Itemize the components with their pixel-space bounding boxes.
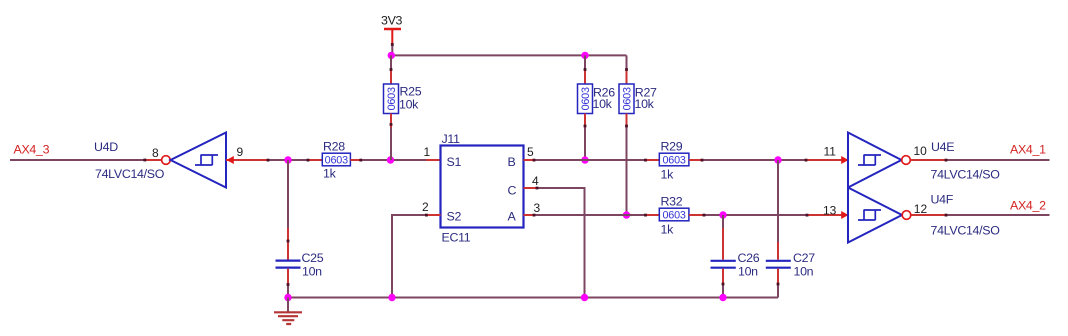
R26 top wire: [584, 55, 586, 70]
R29 left lead: [646, 159, 660, 161]
capacitor C26 plates: [711, 261, 736, 268]
wire endpoint ticks: [143, 43, 947, 286]
wire C25 to ground bus: [287, 284, 289, 298]
resistor R32 body: [659, 208, 689, 221]
R26 top lead: [584, 70, 586, 84]
wire C net to ground bus: [537, 188, 585, 298]
op-amp U4D inverter bubble: [162, 156, 171, 165]
op-amp U4E triangle: [848, 133, 902, 188]
op-amp U4D triangle: [171, 133, 227, 188]
R32 left lead: [646, 214, 660, 216]
svg-text:8: 8: [152, 146, 159, 160]
R27 top lead: [626, 70, 628, 84]
junction node at C25 top: [284, 156, 291, 163]
junction ground at C25: [284, 294, 291, 301]
pin 12 lead of U4F: [911, 214, 946, 216]
U4D input arrow: [227, 156, 234, 164]
C25 bottom lead: [287, 269, 289, 284]
C26 top lead: [722, 228, 724, 260]
svg-text:0603: 0603: [662, 210, 685, 222]
junction C26 top on A net: [719, 211, 726, 218]
svg-text:AX4_3: AX4_3: [14, 143, 50, 157]
resistor R29 body: [659, 153, 689, 166]
svg-text:10k: 10k: [399, 98, 419, 112]
resistor R26 body: [578, 84, 593, 114]
svg-text:1k: 1k: [661, 223, 675, 237]
resistor R28 body: [322, 153, 350, 166]
svg-text:74LVC14/SO: 74LVC14/SO: [95, 167, 165, 181]
svg-text:C: C: [508, 184, 517, 198]
wire 3V3 to top bus: [391, 44, 393, 55]
R25 top wire: [390, 55, 392, 70]
wire U4F to AX4_2: [946, 214, 1050, 216]
pin 4 lead of J11: [524, 187, 538, 189]
svg-text:2: 2: [422, 200, 429, 214]
wire C27 to ground bus: [777, 283, 779, 298]
resistor R25 body: [384, 84, 399, 114]
wire S2 to ground bus: [392, 215, 426, 298]
svg-text:10k: 10k: [635, 97, 655, 111]
svg-text:AX4_1: AX4_1: [1010, 142, 1046, 156]
svg-text:0603: 0603: [386, 87, 398, 110]
R25 wire to node: [390, 128, 392, 161]
svg-text:10: 10: [914, 144, 928, 158]
svg-text:4: 4: [532, 174, 539, 188]
svg-text:A: A: [508, 209, 517, 223]
wire R28 to J11 pin1: [361, 159, 426, 161]
pin 3 lead of J11: [524, 214, 534, 216]
R27 bottom lead: [626, 114, 628, 128]
svg-text:13: 13: [823, 203, 837, 217]
svg-text:3V3: 3V3: [381, 14, 403, 28]
C27 top lead: [777, 242, 779, 260]
svg-text:EC11: EC11: [442, 230, 471, 244]
svg-text:AX4_2: AX4_2: [1010, 198, 1046, 212]
svg-text:J11: J11: [442, 132, 461, 146]
svg-text:U4D: U4D: [94, 140, 118, 154]
U4F input arrow: [841, 211, 848, 219]
svg-text:S2: S2: [447, 209, 462, 223]
pin 13 lead of U4F: [806, 214, 848, 216]
svg-text:11: 11: [824, 144, 837, 158]
pin 11 lead of U4E: [806, 159, 848, 161]
svg-text:U4E: U4E: [931, 140, 954, 154]
ground symbol: [274, 298, 302, 325]
svg-text:R29: R29: [661, 140, 683, 154]
wire B net to C27: [777, 160, 779, 242]
svg-text:3: 3: [534, 201, 541, 215]
junction 3V3/R25: [388, 52, 395, 59]
pin 5 lead of J11: [524, 159, 534, 161]
R29 right lead: [689, 159, 703, 161]
U4F output bubble: [902, 211, 911, 220]
U4D hysteresis symbol: [195, 155, 218, 165]
svg-text:74LVC14/SO: 74LVC14/SO: [931, 223, 1001, 237]
R26 bottom lead: [584, 114, 586, 128]
U4E input arrow: [841, 156, 848, 164]
svg-text:9: 9: [237, 145, 244, 159]
R26 wire to B node: [584, 128, 586, 161]
svg-text:10n: 10n: [302, 264, 322, 278]
svg-text:C25: C25: [302, 251, 324, 265]
junction R26 top: [581, 52, 588, 59]
junction ground at S2 wire: [388, 294, 395, 301]
svg-text:B: B: [508, 155, 516, 169]
wire AX4_3 to U4D output: [10, 159, 145, 161]
svg-text:10k: 10k: [593, 97, 613, 111]
svg-text:R25: R25: [400, 84, 422, 98]
R27 wire to A net: [626, 128, 628, 216]
svg-text:5: 5: [527, 145, 534, 159]
capacitor C27 plates: [766, 261, 791, 268]
pin 8 lead of U4D: [145, 159, 162, 161]
svg-text:S1: S1: [447, 155, 462, 169]
R32 right lead: [689, 214, 703, 216]
junction ground at C26: [719, 294, 726, 301]
ground bus wire: [288, 297, 778, 299]
junction ground at C wire: [581, 294, 588, 301]
svg-text:0603: 0603: [662, 155, 685, 167]
C26 bottom lead: [722, 269, 724, 283]
svg-text:1: 1: [424, 145, 431, 159]
pin 1 lead of J11: [426, 159, 441, 161]
resistor R27 body: [619, 84, 634, 114]
C27 bottom lead: [777, 269, 779, 283]
svg-text:0603: 0603: [622, 87, 634, 110]
svg-text:C27: C27: [793, 251, 815, 265]
wire C26 to ground bus: [722, 283, 724, 298]
R28 right lead: [350, 159, 361, 161]
junction node R25 bottom: [387, 156, 394, 163]
connector J11 body: [441, 146, 524, 228]
R25 bottom lead: [390, 114, 392, 128]
C25 top lead: [287, 228, 289, 260]
U4E hysteresis symbol: [858, 155, 881, 165]
R25 top lead: [390, 70, 392, 84]
svg-text:10n: 10n: [738, 265, 758, 279]
svg-text:C26: C26: [738, 251, 760, 265]
pin 2 lead of J11: [426, 214, 441, 216]
svg-text:1k: 1k: [323, 167, 337, 181]
R27 top wire: [626, 55, 628, 70]
capacitor C25 plates: [276, 261, 301, 268]
wire pin9 to R28: [267, 159, 308, 161]
svg-text:R32: R32: [661, 195, 683, 209]
wire node to C26: [722, 215, 724, 228]
wire R32 to U4F: [703, 214, 806, 216]
svg-text:10n: 10n: [794, 265, 814, 279]
wire R29 to U4E: [703, 159, 806, 161]
pin 10 lead of U4E: [911, 159, 946, 161]
U4F hysteresis symbol: [858, 210, 881, 220]
wire A net to R32: [533, 214, 645, 216]
op-amp U4F triangle: [848, 188, 902, 243]
svg-text:0603: 0603: [325, 155, 348, 167]
svg-text:0603: 0603: [580, 87, 592, 110]
junction R27 bottom on A net: [623, 211, 630, 218]
U4E output bubble: [902, 156, 911, 165]
svg-text:R28: R28: [323, 140, 345, 154]
svg-text:12: 12: [914, 202, 928, 216]
junction R26 bottom on B net: [581, 156, 588, 163]
top pullup bus wire: [391, 54, 626, 56]
wire node to C25: [287, 160, 289, 228]
wire B net to R29: [533, 159, 645, 161]
junction C27 top on B net: [774, 156, 781, 163]
svg-text:U4F: U4F: [931, 193, 954, 207]
wire U4E to AX4_1: [946, 159, 1050, 161]
svg-text:74LVC14/SO: 74LVC14/SO: [931, 167, 1001, 181]
R28 left lead: [308, 159, 322, 161]
svg-text:1k: 1k: [661, 168, 675, 182]
pin 9 lead of U4D with arrow: [226, 159, 267, 161]
